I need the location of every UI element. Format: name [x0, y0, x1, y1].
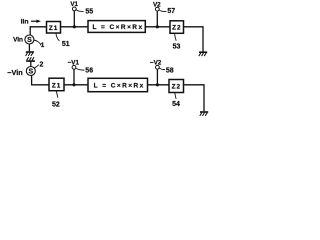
- svg-text:57: 57: [167, 8, 175, 15]
- svg-text:Z2: Z2: [172, 25, 181, 32]
- svg-text:S: S: [27, 37, 32, 44]
- svg-text:Z2: Z2: [172, 84, 181, 91]
- svg-text:51: 51: [62, 41, 70, 48]
- svg-text:54: 54: [172, 101, 180, 108]
- svg-text:V1: V1: [70, 1, 78, 8]
- svg-text:Vin: Vin: [13, 37, 23, 44]
- svg-text:56: 56: [85, 68, 93, 75]
- svg-text:V2: V2: [153, 1, 161, 8]
- svg-text:−Vin: −Vin: [7, 68, 22, 77]
- svg-text:58: 58: [166, 68, 174, 75]
- svg-text:2: 2: [40, 61, 44, 68]
- svg-text:−V2: −V2: [150, 60, 162, 67]
- svg-text:L = C×R×Rx: L = C×R×Rx: [94, 83, 145, 90]
- svg-text:Z1: Z1: [49, 25, 58, 32]
- svg-text:−V1: −V1: [68, 60, 80, 67]
- svg-text:55: 55: [85, 9, 93, 16]
- svg-text:Z1: Z1: [52, 83, 61, 90]
- svg-text:52: 52: [52, 102, 60, 109]
- svg-text:S: S: [28, 69, 33, 76]
- svg-text:Iin: Iin: [21, 18, 29, 25]
- svg-text:L = C×R×Rx: L = C×R×Rx: [92, 24, 143, 31]
- svg-text:53: 53: [173, 44, 181, 51]
